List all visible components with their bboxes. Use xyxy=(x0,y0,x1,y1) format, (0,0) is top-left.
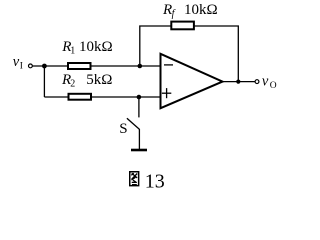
svg-text:5kΩ: 5kΩ xyxy=(86,72,112,88)
svg-text:I: I xyxy=(20,61,23,71)
svg-text:10kΩ: 10kΩ xyxy=(184,2,218,18)
svg-text:v: v xyxy=(13,54,20,70)
svg-text:2: 2 xyxy=(70,79,75,90)
svg-text:O: O xyxy=(270,81,277,91)
svg-text:10kΩ: 10kΩ xyxy=(79,39,113,55)
svg-text:S: S xyxy=(119,121,127,137)
svg-text:13: 13 xyxy=(145,170,165,192)
svg-text:f: f xyxy=(172,9,176,20)
svg-text:1: 1 xyxy=(70,46,75,57)
svg-text:v: v xyxy=(262,74,269,90)
